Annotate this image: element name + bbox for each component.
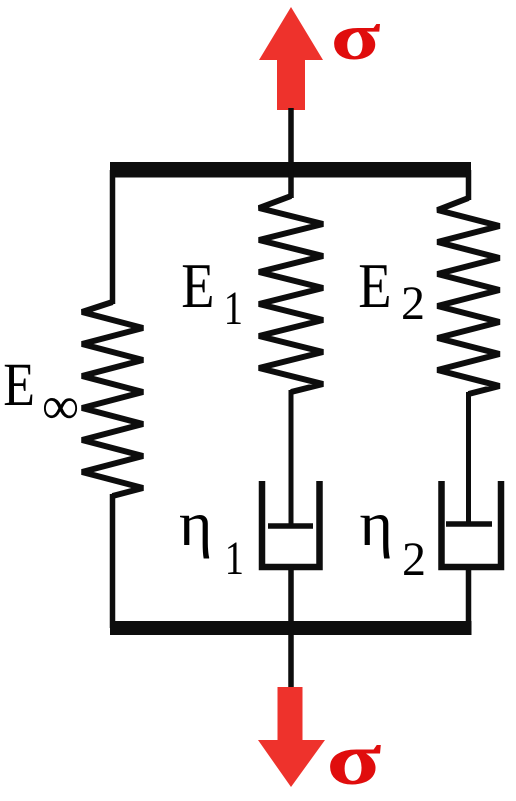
svg-text:∞: ∞ — [42, 377, 79, 436]
wire: top bar to spring E-inf — [110, 170, 116, 304]
wire: spring E1 to dashpot piston rod — [289, 390, 294, 527]
wire: top bar to spring E2 — [466, 170, 472, 200]
svg-text:η: η — [360, 488, 393, 559]
svg-text:2: 2 — [401, 277, 425, 330]
svg-text:E: E — [358, 250, 391, 321]
svg-text:η: η — [179, 488, 212, 559]
wire: spring E-inf to bottom bar — [110, 494, 116, 628]
wire: top arrow to top bar — [288, 108, 294, 170]
wire: top bar to spring E1 — [288, 170, 294, 198]
svg-text:E: E — [3, 352, 35, 419]
svg-text:σ: σ — [326, 719, 381, 801]
top rigid bar — [110, 162, 471, 178]
stress arrow sigma (bottom) — [258, 687, 325, 787]
svg-text:2: 2 — [402, 533, 426, 586]
dashpot eta2 piston plate — [446, 521, 492, 527]
wire: bottom bar to bottom arrow — [288, 630, 294, 688]
dashpot eta1 cylinder — [262, 481, 320, 567]
dashpot eta1 piston plate — [268, 523, 313, 529]
spring E2 — [438, 198, 500, 394]
wire: dashpot eta2 to bottom bar — [466, 568, 472, 628]
spring E1 — [259, 196, 323, 392]
wire: dashpot eta1 to bottom bar — [288, 567, 294, 628]
svg-text:1: 1 — [224, 282, 243, 335]
svg-text:E: E — [181, 250, 214, 321]
dashpot eta2 cylinder — [442, 481, 502, 567]
stress arrow sigma (top) — [259, 7, 323, 110]
svg-text:σ: σ — [331, 0, 381, 74]
spring E-inf — [82, 302, 143, 496]
svg-text:1: 1 — [225, 532, 244, 585]
bottom rigid bar — [110, 621, 472, 635]
wire: spring E2 to dashpot piston rod — [466, 392, 471, 526]
